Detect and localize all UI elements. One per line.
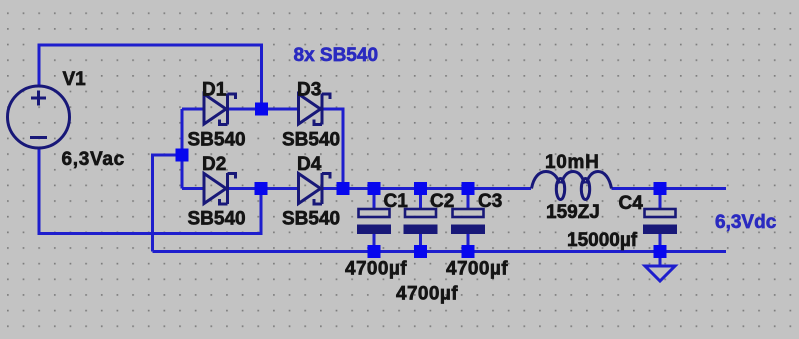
wire D4 cathode to node DC+ [322,187,343,190]
wire DC+ rail to inductor [343,187,531,190]
svg-text:SB540: SB540 [282,209,340,230]
wire D1 cathode to node AC1 [228,108,262,111]
wire bottom DC- rail [153,250,727,253]
diode D3 [299,94,331,125]
ground [645,266,675,281]
svg-text:4700µf: 4700µf [446,259,508,280]
diode D1 [204,94,236,125]
voltage source V1 [8,86,70,148]
wire V1 top to node AC1 [39,45,262,109]
svg-text:V1: V1 [63,69,87,90]
wire D2 anode pin [182,187,204,190]
wire D2 cathode to node AC2 [228,187,262,190]
wire C2 stubs [419,189,422,211]
node C4 bottom junction [654,245,667,258]
svg-text:6,3Vac: 6,3Vac [62,149,125,170]
node AC1 junction [255,103,268,116]
wire inductor to C4 and output [612,187,727,190]
wire D3 cathode to right column [322,109,343,189]
svg-text:D3: D3 [297,80,321,101]
wire DC- tap from node B to bottom rail [153,155,183,252]
svg-text:4700µf: 4700µf [396,284,458,305]
svg-text:SB540: SB540 [282,130,340,151]
svg-text:10mH: 10mH [545,152,600,173]
svg-text:D4: D4 [297,154,322,175]
wire node AC1 to D3 anode [262,108,299,111]
diode D2 [204,173,236,204]
wire V1 bottom to node AC2 [39,147,261,234]
svg-text:C1: C1 [384,191,409,212]
wire ground stub [659,252,662,267]
node C2 top junction [414,182,427,195]
wire C4 stubs [659,189,662,211]
svg-text:15000µf: 15000µf [567,230,638,251]
svg-text:C2: C2 [430,191,454,212]
wire C3 stubs [467,189,470,211]
node B junction (DC- tap) [176,149,189,162]
svg-text:4700µf: 4700µf [345,259,407,280]
node C4 top junction [654,182,667,195]
capacitor C3 [451,209,485,234]
inductor L1 [532,172,612,200]
svg-text:C4: C4 [619,193,644,214]
diode D4 [299,173,331,204]
node C3 bottom junction [462,245,475,258]
svg-text:C3: C3 [478,191,502,212]
wire node AC2 to D4 anode [261,187,299,190]
svg-text:D2: D2 [202,154,226,175]
wire D1 anode pin [182,108,204,111]
node C1 bottom junction [368,245,381,258]
node DC+ junction [337,182,350,195]
node C3 top junction [462,182,475,195]
capacitor C2 [404,209,438,234]
svg-text:D1: D1 [202,80,227,101]
svg-text:SB540: SB540 [188,209,246,230]
node AC2 junction [255,182,268,195]
capacitor C4 [643,209,677,234]
svg-text:SB540: SB540 [188,130,246,151]
capacitor C1 [357,209,391,234]
wire C1 stubs [373,189,376,211]
node C1 top junction [368,182,381,195]
svg-text:8x SB540: 8x SB540 [294,45,379,66]
svg-text:159ZJ: 159ZJ [546,202,600,223]
svg-text:6,3Vdc: 6,3Vdc [715,212,777,233]
wire left bridge column (D1 anode to D2 anode) [181,109,184,189]
node C2 bottom junction [414,245,427,258]
